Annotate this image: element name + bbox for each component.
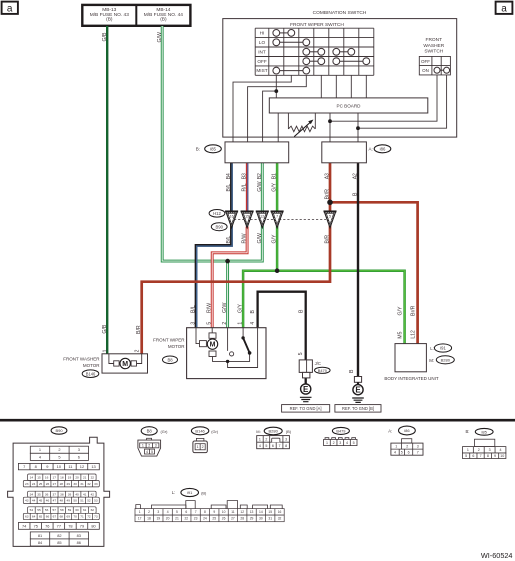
svg-text:B/L: B/L [226, 236, 232, 244]
svg-text:38: 38 [60, 492, 64, 496]
svg-text:15: 15 [37, 475, 41, 479]
wire B/L switch B4 to wiper motor pin 3 [196, 163, 231, 328]
svg-text:56: 56 [45, 508, 49, 512]
svg-text:2: 2 [222, 322, 228, 325]
svg-text:60: 60 [75, 508, 79, 512]
svg-text:15: 15 [268, 510, 272, 514]
connector B8 pinout [141, 427, 157, 435]
svg-text:i85: i85 [482, 429, 488, 434]
connector B8 body [147, 438, 152, 440]
svg-text:PC BOARD: PC BOARD [337, 104, 362, 109]
svg-text:M: M [210, 342, 216, 349]
wire R/L switch B3 to connector [246, 163, 249, 212]
svg-text:28: 28 [60, 482, 64, 486]
svg-text:79: 79 [80, 523, 84, 528]
front wiper motor box [187, 328, 266, 379]
svg-text:B: B [349, 369, 355, 373]
svg-text:4: 4 [250, 322, 256, 325]
svg-text:17: 17 [53, 475, 57, 479]
connector pair H12/B90 pin 7 (G/Y) [271, 211, 284, 228]
svg-text:G/W: G/W [222, 303, 228, 313]
svg-text:J/C: J/C [315, 361, 321, 366]
svg-text:35: 35 [37, 492, 41, 496]
svg-text:B3: B3 [242, 173, 248, 179]
svg-text:(B): (B) [286, 429, 292, 434]
variable resistor (intermittent time pot) [288, 113, 315, 129]
svg-text:29: 29 [66, 482, 70, 486]
svg-text:i91: i91 [187, 490, 193, 495]
svg-text:G/W: G/W [257, 181, 263, 191]
joint connector J/C B479 [299, 360, 312, 373]
svg-text:FRONT WIPER: FRONT WIPER [153, 337, 185, 342]
svg-text:36: 36 [45, 492, 49, 496]
svg-text:3: 3 [155, 444, 157, 448]
wire PC board to pin B1 [277, 113, 279, 142]
svg-text:1: 1 [103, 349, 109, 352]
svg-text:1: 1 [39, 447, 41, 452]
svg-text:2: 2 [333, 441, 335, 445]
svg-text:13: 13 [91, 464, 95, 469]
svg-text:L:: L: [430, 346, 434, 351]
wire G/W fuse MB-14 joining wiper switch B2 net [162, 26, 262, 261]
svg-text:ON: ON [422, 68, 429, 73]
svg-text:3: 3 [285, 437, 287, 441]
svg-text:9: 9 [213, 510, 215, 514]
svg-text:54: 54 [30, 508, 34, 512]
svg-text:83: 83 [77, 533, 81, 538]
svg-text:3: 3 [157, 510, 159, 514]
svg-text:5: 5 [353, 441, 355, 445]
svg-text:62: 62 [91, 508, 95, 512]
svg-text:13: 13 [250, 510, 254, 514]
svg-text:B/R: B/R [325, 235, 331, 244]
svg-text:23: 23 [25, 482, 29, 486]
svg-text:A:: A: [388, 429, 392, 434]
svg-text:75: 75 [34, 523, 38, 528]
svg-text:B2: B2 [257, 173, 263, 179]
combination switch box [223, 19, 457, 138]
wire Br/R branch to BIU L12 [330, 202, 418, 343]
svg-text:a: a [7, 4, 13, 15]
wire col3 to pin B3 [248, 75, 307, 142]
svg-text:42: 42 [91, 492, 95, 496]
svg-text:(Gr): (Gr) [161, 429, 169, 434]
svg-text:40: 40 [75, 492, 79, 496]
svg-text:32: 32 [87, 482, 91, 486]
svg-text:10: 10 [500, 454, 504, 458]
wiper motor park switch arm [243, 338, 250, 353]
node a (top-right index) [496, 2, 513, 14]
svg-text:30: 30 [73, 482, 77, 486]
connector B90 label [211, 223, 227, 231]
front wiper switch contact grid [255, 28, 374, 75]
svg-text:B479: B479 [336, 429, 345, 434]
wire PC board to pin A2 [357, 113, 359, 142]
svg-text:24: 24 [32, 482, 36, 486]
svg-text:10: 10 [222, 510, 226, 514]
washer motor leads [109, 354, 142, 364]
svg-text:G/Y: G/Y [397, 306, 403, 315]
svg-text:65: 65 [39, 515, 43, 519]
svg-text:B280: B280 [269, 429, 279, 434]
svg-text:63: 63 [25, 515, 29, 519]
svg-text:(B): (B) [160, 17, 167, 23]
svg-text:2: 2 [148, 510, 150, 514]
svg-text:3: 3 [191, 322, 197, 325]
svg-text:39: 39 [68, 492, 72, 496]
connector B146 body [196, 438, 204, 441]
svg-text:22: 22 [91, 475, 95, 479]
svg-text:11: 11 [231, 510, 235, 514]
svg-text:REF. TO GND [B]: REF. TO GND [B] [342, 406, 374, 411]
svg-text:8: 8 [204, 510, 206, 514]
svg-text:2: 2 [148, 444, 150, 448]
svg-text:(B): (B) [106, 17, 113, 23]
connector B90 body [8, 437, 110, 546]
svg-text:8: 8 [35, 464, 37, 469]
svg-text:9: 9 [46, 464, 48, 469]
svg-text:2: 2 [406, 445, 408, 449]
svg-text:B:: B: [196, 147, 200, 152]
svg-text:5: 5 [298, 352, 304, 355]
svg-text:G/Y: G/Y [272, 182, 278, 191]
svg-text:a: a [501, 4, 507, 15]
svg-text:12: 12 [260, 215, 264, 219]
wire washer switch ON-1 to A3 net [330, 73, 437, 121]
svg-text:86: 86 [77, 540, 81, 545]
connector pair H12/B90 pin 16 (B/L) [225, 211, 238, 228]
svg-text:E: E [355, 386, 361, 395]
svg-text:(B): (B) [201, 490, 207, 495]
front washer switch contact grid [419, 56, 450, 75]
svg-text:2: 2 [478, 448, 480, 452]
svg-text:1: 1 [467, 448, 469, 452]
svg-text:22: 22 [184, 517, 188, 521]
connector i85 body [475, 439, 495, 446]
svg-text:19: 19 [156, 517, 160, 521]
ground E right [353, 385, 363, 395]
svg-text:B146: B146 [195, 429, 205, 434]
svg-text:16: 16 [45, 475, 49, 479]
svg-text:50: 50 [73, 499, 77, 503]
svg-text:R/W: R/W [207, 303, 213, 313]
svg-text:G/W: G/W [257, 233, 263, 243]
svg-text:INT: INT [258, 49, 266, 54]
wire G/Y switch B1 to wiper motor pin 1 and BIU M5 [243, 163, 405, 344]
svg-text:OFF: OFF [421, 59, 430, 64]
svg-text:M: M [122, 361, 128, 368]
svg-text:41: 41 [83, 492, 87, 496]
dashed connector tie line [234, 219, 326, 221]
ground E right connector stub [354, 377, 361, 383]
connector A: i86 [322, 142, 367, 163]
svg-text:4: 4 [259, 444, 261, 448]
connector pair H12/B90 pin 12 (G/W) [256, 211, 269, 228]
junction G/W net [225, 259, 230, 264]
svg-text:REF. TO GND [A]: REF. TO GND [A] [290, 406, 322, 411]
svg-text:76: 76 [45, 523, 49, 528]
svg-text:30: 30 [259, 517, 263, 521]
svg-text:11: 11 [68, 464, 72, 469]
wiper motor M symbol [200, 341, 207, 347]
svg-text:FRONT WIPER SWITCH: FRONT WIPER SWITCH [290, 22, 344, 28]
svg-text:R/L: R/L [242, 183, 248, 191]
svg-text:2: 2 [265, 437, 267, 441]
svg-text:LO: LO [259, 40, 266, 45]
wire col2 to pin B4 [233, 75, 291, 142]
svg-text:3: 3 [339, 441, 341, 445]
svg-text:53: 53 [94, 499, 98, 503]
ref to gnd box A [282, 405, 330, 413]
svg-text:59: 59 [68, 508, 72, 512]
svg-text:34: 34 [30, 492, 34, 496]
wiper motor internal leads [196, 328, 258, 368]
svg-text:21: 21 [175, 517, 179, 521]
connector B280 body [257, 436, 290, 449]
svg-text:6: 6 [272, 444, 274, 448]
svg-text:9: 9 [494, 454, 496, 458]
fuse block MB-13 / MB-14 [82, 5, 190, 26]
svg-text:32: 32 [278, 517, 282, 521]
svg-text:B/R: B/R [136, 325, 142, 334]
svg-text:B8: B8 [147, 429, 153, 434]
washer motor M symbol [114, 361, 119, 366]
svg-text:17: 17 [138, 517, 142, 521]
svg-text:27: 27 [53, 482, 57, 486]
svg-text:B: B [250, 310, 256, 314]
svg-text:4: 4 [499, 448, 501, 452]
svg-text:A3: A3 [325, 173, 331, 179]
svg-text:2: 2 [202, 445, 204, 449]
svg-text:31: 31 [80, 482, 84, 486]
svg-text:4: 4 [394, 451, 396, 455]
svg-text:14: 14 [30, 475, 34, 479]
svg-text:B/L: B/L [191, 305, 197, 313]
svg-text:46: 46 [46, 499, 50, 503]
svg-text:i86: i86 [404, 428, 410, 433]
svg-text:8: 8 [285, 444, 287, 448]
svg-text:69: 69 [66, 515, 70, 519]
svg-text:B8: B8 [167, 358, 173, 363]
svg-text:85: 85 [57, 540, 61, 545]
svg-text:48: 48 [60, 499, 64, 503]
svg-text:18: 18 [147, 517, 151, 521]
svg-text:12: 12 [80, 464, 84, 469]
svg-text:M5: M5 [397, 331, 403, 338]
front washer motor box [102, 354, 148, 373]
svg-text:MOTOR: MOTOR [83, 363, 100, 368]
svg-text:WASHER: WASHER [423, 43, 444, 49]
svg-text:5: 5 [58, 454, 60, 459]
svg-text:G/W: G/W [157, 32, 163, 42]
svg-text:1: 1 [139, 510, 141, 514]
svg-text:6: 6 [472, 454, 474, 458]
svg-text:G/Y: G/Y [238, 304, 244, 313]
svg-text:1: 1 [197, 445, 199, 449]
svg-text:24: 24 [203, 517, 207, 521]
svg-text:7: 7 [195, 510, 197, 514]
svg-text:28: 28 [240, 517, 244, 521]
wire wiper switch col4-col7 to PC board [321, 75, 366, 98]
svg-text:(Gr): (Gr) [211, 429, 219, 434]
wire PC board to pin A3 [329, 113, 331, 142]
svg-text:FRONT WASHER: FRONT WASHER [63, 356, 100, 361]
svg-text:81: 81 [38, 533, 42, 538]
svg-text:A:: A: [369, 147, 373, 152]
svg-text:i85: i85 [210, 147, 216, 152]
connector H12 label [209, 210, 225, 218]
svg-text:20: 20 [75, 475, 79, 479]
svg-text:E: E [303, 385, 309, 394]
svg-text:29: 29 [250, 517, 254, 521]
svg-text:MIST: MIST [256, 68, 267, 73]
wire Br/R switch A3 to washer motor pin 2 (B/R below connector) [142, 163, 330, 354]
svg-text:3: 3 [78, 447, 80, 452]
svg-text:61: 61 [83, 508, 87, 512]
svg-text:23: 23 [194, 517, 198, 521]
svg-text:14: 14 [259, 510, 263, 514]
connector B146 pinout [191, 427, 208, 435]
svg-text:i86: i86 [380, 147, 386, 152]
wire washer switch ON-2 to A2 net [358, 73, 447, 128]
wire B switch A2 to ground [357, 163, 359, 377]
svg-text:33: 33 [94, 482, 98, 486]
wire col1 to PC board and pin B2 [263, 75, 277, 142]
connector i86 body [402, 439, 412, 443]
svg-text:3: 3 [489, 448, 491, 452]
wiper motor park switch contact [230, 352, 234, 356]
svg-text:5: 5 [401, 451, 403, 455]
svg-text:6: 6 [408, 451, 410, 455]
connector i91 body [136, 501, 282, 509]
svg-text:37: 37 [53, 492, 57, 496]
section separator line [0, 419, 515, 422]
svg-text:26: 26 [222, 517, 226, 521]
svg-text:1: 1 [395, 445, 397, 449]
svg-text:47: 47 [53, 499, 57, 503]
wiper switch contacts [276, 32, 291, 34]
svg-text:21: 21 [83, 475, 87, 479]
svg-text:27: 27 [231, 517, 235, 521]
svg-text:12: 12 [240, 510, 244, 514]
svg-text:1: 1 [142, 444, 144, 448]
svg-text:M:: M: [256, 429, 260, 434]
svg-text:43: 43 [25, 499, 29, 503]
svg-text:B/L: B/L [226, 184, 232, 192]
svg-text:COMBINATION SWITCH: COMBINATION SWITCH [313, 10, 367, 16]
svg-text:B:: B: [466, 429, 470, 434]
svg-text:SWITCH: SWITCH [424, 49, 443, 55]
svg-text:26: 26 [46, 482, 50, 486]
svg-text:BODY INTEGRATED UNIT: BODY INTEGRATED UNIT [384, 376, 439, 381]
svg-text:4: 4 [167, 510, 169, 514]
svg-text:4: 4 [346, 441, 348, 445]
PC board [269, 98, 428, 113]
svg-text:8: 8 [487, 454, 489, 458]
wire B wiper motor pin 4 to joint connector B479 [258, 292, 306, 384]
svg-text:64: 64 [32, 515, 36, 519]
svg-text:A2: A2 [353, 173, 359, 179]
body integrated unit box [395, 344, 426, 372]
svg-text:B: B [299, 309, 305, 313]
svg-text:WI-60524: WI-60524 [481, 551, 513, 560]
svg-text:B1: B1 [272, 173, 278, 179]
svg-text:G/B: G/B [102, 324, 108, 333]
connector B479 body [325, 438, 356, 440]
connector pair H12/B90 pin 15 (R/L-R/W) [241, 211, 254, 228]
svg-text:L:: L: [172, 490, 176, 495]
svg-text:73: 73 [94, 515, 98, 519]
ground E left [301, 384, 311, 394]
svg-text:B479: B479 [318, 368, 327, 373]
svg-text:7: 7 [417, 451, 419, 455]
svg-text:18: 18 [60, 475, 64, 479]
junction Br/R net [327, 200, 333, 206]
svg-text:L12: L12 [411, 330, 417, 339]
svg-text:15: 15 [245, 215, 249, 219]
svg-text:Br/R: Br/R [325, 189, 331, 200]
svg-text:M:: M: [429, 358, 434, 363]
node a (top-left index) [2, 2, 18, 14]
svg-text:51: 51 [80, 499, 84, 503]
svg-text:5: 5 [151, 450, 153, 454]
svg-text:44: 44 [32, 499, 36, 503]
junction G/Y net [275, 268, 280, 273]
svg-text:H12: H12 [213, 211, 221, 216]
svg-text:72: 72 [87, 515, 91, 519]
svg-text:49: 49 [66, 499, 70, 503]
wire G/W branch to wiper motor pin 2 [226, 261, 229, 328]
svg-text:5: 5 [329, 215, 331, 219]
svg-text:45: 45 [39, 499, 43, 503]
connector pair H12/B90 pin 5 (Br/R-B/R) [324, 211, 337, 228]
svg-text:G/B: G/B [102, 32, 108, 41]
svg-text:20: 20 [166, 517, 170, 521]
svg-text:71: 71 [80, 515, 84, 519]
svg-text:HI: HI [260, 31, 265, 36]
svg-text:16: 16 [230, 215, 234, 219]
svg-text:2: 2 [135, 349, 141, 352]
svg-text:B280: B280 [441, 358, 451, 363]
ref to gnd box B [335, 405, 381, 413]
connector B: i85 [225, 142, 289, 163]
connector B479 pinout [332, 427, 349, 434]
svg-text:68: 68 [60, 515, 64, 519]
svg-text:B4: B4 [226, 173, 232, 179]
connector B90 pinout [51, 427, 67, 434]
svg-text:5: 5 [265, 444, 267, 448]
svg-text:19: 19 [68, 475, 72, 479]
svg-text:5: 5 [207, 322, 213, 325]
svg-text:55: 55 [37, 508, 41, 512]
svg-text:7: 7 [23, 464, 25, 469]
svg-text:6: 6 [78, 454, 80, 459]
svg-text:B90: B90 [55, 428, 63, 433]
svg-text:70: 70 [73, 515, 77, 519]
svg-text:7: 7 [276, 215, 278, 219]
svg-text:3: 3 [417, 445, 419, 449]
svg-text:78: 78 [68, 523, 72, 528]
svg-text:7: 7 [480, 454, 482, 458]
svg-text:82: 82 [57, 533, 61, 538]
svg-text:B146: B146 [86, 371, 96, 376]
svg-text:B: B [353, 192, 359, 196]
svg-text:66: 66 [46, 515, 50, 519]
svg-text:7: 7 [279, 444, 281, 448]
svg-text:R/W: R/W [242, 233, 248, 243]
svg-text:MOTOR: MOTOR [168, 344, 185, 349]
svg-text:5: 5 [465, 454, 467, 458]
